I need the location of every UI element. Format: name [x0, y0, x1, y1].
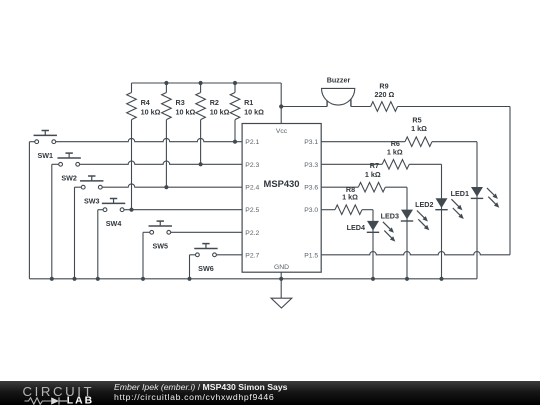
node ground bus LED junction [371, 277, 375, 281]
wire R9 to right rail [398, 106, 510, 108]
pushbutton SW1 [35, 140, 39, 144]
svg-text:220 Ω: 220 Ω [375, 90, 395, 99]
svg-text:Vcc: Vcc [276, 128, 288, 135]
svg-text:SW6: SW6 [198, 264, 214, 273]
wire R1 bottom lead [234, 120, 236, 142]
node R4 junction [129, 208, 133, 212]
wire R7 to LED3 column [385, 186, 407, 188]
pushbutton SW6 [196, 253, 200, 257]
resistor R6 body [382, 160, 409, 170]
svg-text:P3.0: P3.0 [304, 207, 318, 214]
svg-text:GND: GND [274, 264, 289, 271]
diode LED1 [471, 187, 483, 197]
svg-text:SW3: SW3 [84, 196, 100, 205]
svg-text:1 kΩ: 1 kΩ [342, 192, 358, 201]
resistor R1 body [234, 83, 236, 93]
wire P1.5 row [321, 252, 510, 255]
wire SW6 drop to ground bus [189, 255, 191, 279]
svg-text:SW5: SW5 [152, 242, 168, 251]
resistor R5 body [405, 137, 432, 147]
wire SW3 to MSP430 [102, 184, 242, 187]
wire Vcc top rail [132, 82, 282, 84]
svg-text:LED1: LED1 [451, 189, 469, 198]
wire GND pin to ground [280, 272, 282, 298]
wire LED1 column [476, 142, 478, 279]
svg-text:SW4: SW4 [106, 219, 122, 228]
svg-text:R6: R6 [391, 139, 400, 148]
node ground bus GND junction [279, 277, 283, 281]
wire R5 row from chip [321, 141, 405, 143]
node ground bus switch junction [50, 277, 54, 281]
node ground bus switch junction [187, 277, 191, 281]
pushbutton SW2 [59, 162, 63, 166]
wire SW1 left lead [29, 141, 34, 143]
buzzer body [322, 88, 355, 105]
svg-text:R7: R7 [370, 161, 379, 170]
wire right rail down to P1.5 [509, 107, 511, 255]
svg-text:Buzzer: Buzzer [327, 76, 351, 85]
svg-text:R3: R3 [176, 98, 185, 107]
CircuitLab logo [20, 384, 130, 408]
svg-text:10 kΩ: 10 kΩ [176, 107, 196, 116]
svg-text:1 kΩ: 1 kΩ [387, 148, 403, 157]
svg-text:LED4: LED4 [347, 223, 365, 232]
svg-text:MSP430: MSP430 [264, 178, 300, 189]
wire R6 to LED2 column [409, 163, 441, 165]
svg-text:LED2: LED2 [415, 200, 433, 209]
node ground bus switch junction [141, 277, 145, 281]
wire SW3 left lead [75, 186, 82, 188]
wire R5 to LED1 column [432, 141, 477, 143]
node ground bus LED junction [439, 277, 443, 281]
wire SW4 drop to ground bus [97, 210, 99, 279]
wire SW1 to MSP430 [56, 138, 242, 141]
svg-text:R4: R4 [141, 98, 150, 107]
resistor R3 body [165, 83, 167, 93]
svg-text:P2.4: P2.4 [245, 185, 259, 192]
svg-text:R9: R9 [379, 81, 388, 90]
wire LED4 column [372, 210, 374, 279]
svg-text:LED3: LED3 [381, 212, 399, 221]
wire SW2 left lead [52, 163, 59, 165]
wire SW3 drop to ground bus [74, 187, 76, 279]
buzzer pins [326, 99, 328, 107]
node Vcc buzzer junction [279, 104, 283, 108]
node R2 junction [199, 162, 203, 166]
node ground bus switch junction [96, 277, 100, 281]
wire R3 bottom lead [165, 120, 167, 188]
pushbutton SW3 [81, 185, 85, 189]
resistor R4 body [131, 83, 133, 93]
svg-text:P2.5: P2.5 [245, 207, 259, 214]
wire R8 to LED4 column [362, 209, 373, 211]
wire SW5 drop to ground bus [142, 232, 144, 278]
diode LED2 [436, 198, 448, 208]
svg-text:10 kΩ: 10 kΩ [244, 107, 264, 116]
node Vcc-R2 junction [199, 81, 203, 85]
svg-text:10 kΩ: 10 kΩ [141, 107, 161, 116]
svg-text:P2.1: P2.1 [245, 139, 259, 146]
wire R6 row from chip [321, 163, 382, 165]
pushbutton SW5 [150, 230, 154, 234]
node ground bus LED junction [405, 277, 409, 281]
resistor R8 body [335, 205, 362, 215]
node Vcc-R1 junction [233, 81, 237, 85]
svg-text:P2.3: P2.3 [245, 162, 259, 169]
resistor R9 body [371, 102, 398, 112]
wire R7 row from chip [321, 186, 358, 188]
diode LED3 [401, 210, 413, 220]
wire Vcc junction to buzzer [281, 106, 327, 108]
resistor R7 body [358, 182, 385, 192]
pushbutton SW4 [103, 208, 107, 212]
svg-text:10 kΩ: 10 kΩ [210, 107, 230, 116]
wire Vcc rail to chip Vcc pin [280, 83, 282, 124]
diode LED4 [367, 221, 379, 231]
wire SW4 left lead [98, 209, 103, 211]
wire SW5 to MSP430 [171, 231, 242, 233]
svg-text:P1.5: P1.5 [304, 252, 318, 259]
op-amp U1 MSP430 body [242, 124, 321, 273]
svg-text:R2: R2 [210, 98, 219, 107]
svg-text:1 kΩ: 1 kΩ [411, 124, 427, 133]
wire SW4 to MSP430 [124, 209, 242, 211]
node Vcc-R3 junction [164, 81, 168, 85]
svg-text:R1: R1 [244, 98, 253, 107]
node R3 junction [164, 185, 168, 189]
svg-text:SW1: SW1 [37, 151, 53, 160]
svg-text:1 kΩ: 1 kΩ [365, 170, 381, 179]
wire R8 row from chip [321, 209, 335, 211]
svg-text:SW2: SW2 [61, 174, 77, 183]
svg-text:P2.2: P2.2 [245, 230, 259, 237]
wire SW5 left lead [143, 231, 150, 233]
wire SW1 drop to ground bus [28, 142, 30, 279]
wire SW2 drop to ground bus [51, 164, 53, 278]
wire LED3 column [406, 187, 408, 279]
resistor R2 body [200, 83, 202, 93]
wire buzzer to R9 [351, 106, 371, 108]
wire SW6 to MSP430 [216, 254, 242, 256]
wire R2 bottom lead [200, 120, 202, 165]
wire SW6 left lead [190, 254, 196, 256]
wire ground bus [29, 278, 477, 280]
wire R4 bottom lead [131, 120, 133, 210]
node ground bus switch junction [72, 277, 76, 281]
ground [271, 298, 292, 308]
svg-text:P3.6: P3.6 [304, 185, 318, 192]
wire SW2 to MSP430 [80, 161, 243, 164]
svg-text:P3.1: P3.1 [304, 139, 318, 146]
svg-text:P3.3: P3.3 [304, 162, 318, 169]
svg-text:P2.7: P2.7 [245, 252, 259, 259]
node R1 junction [233, 140, 237, 144]
wire LED2 column [441, 164, 443, 278]
